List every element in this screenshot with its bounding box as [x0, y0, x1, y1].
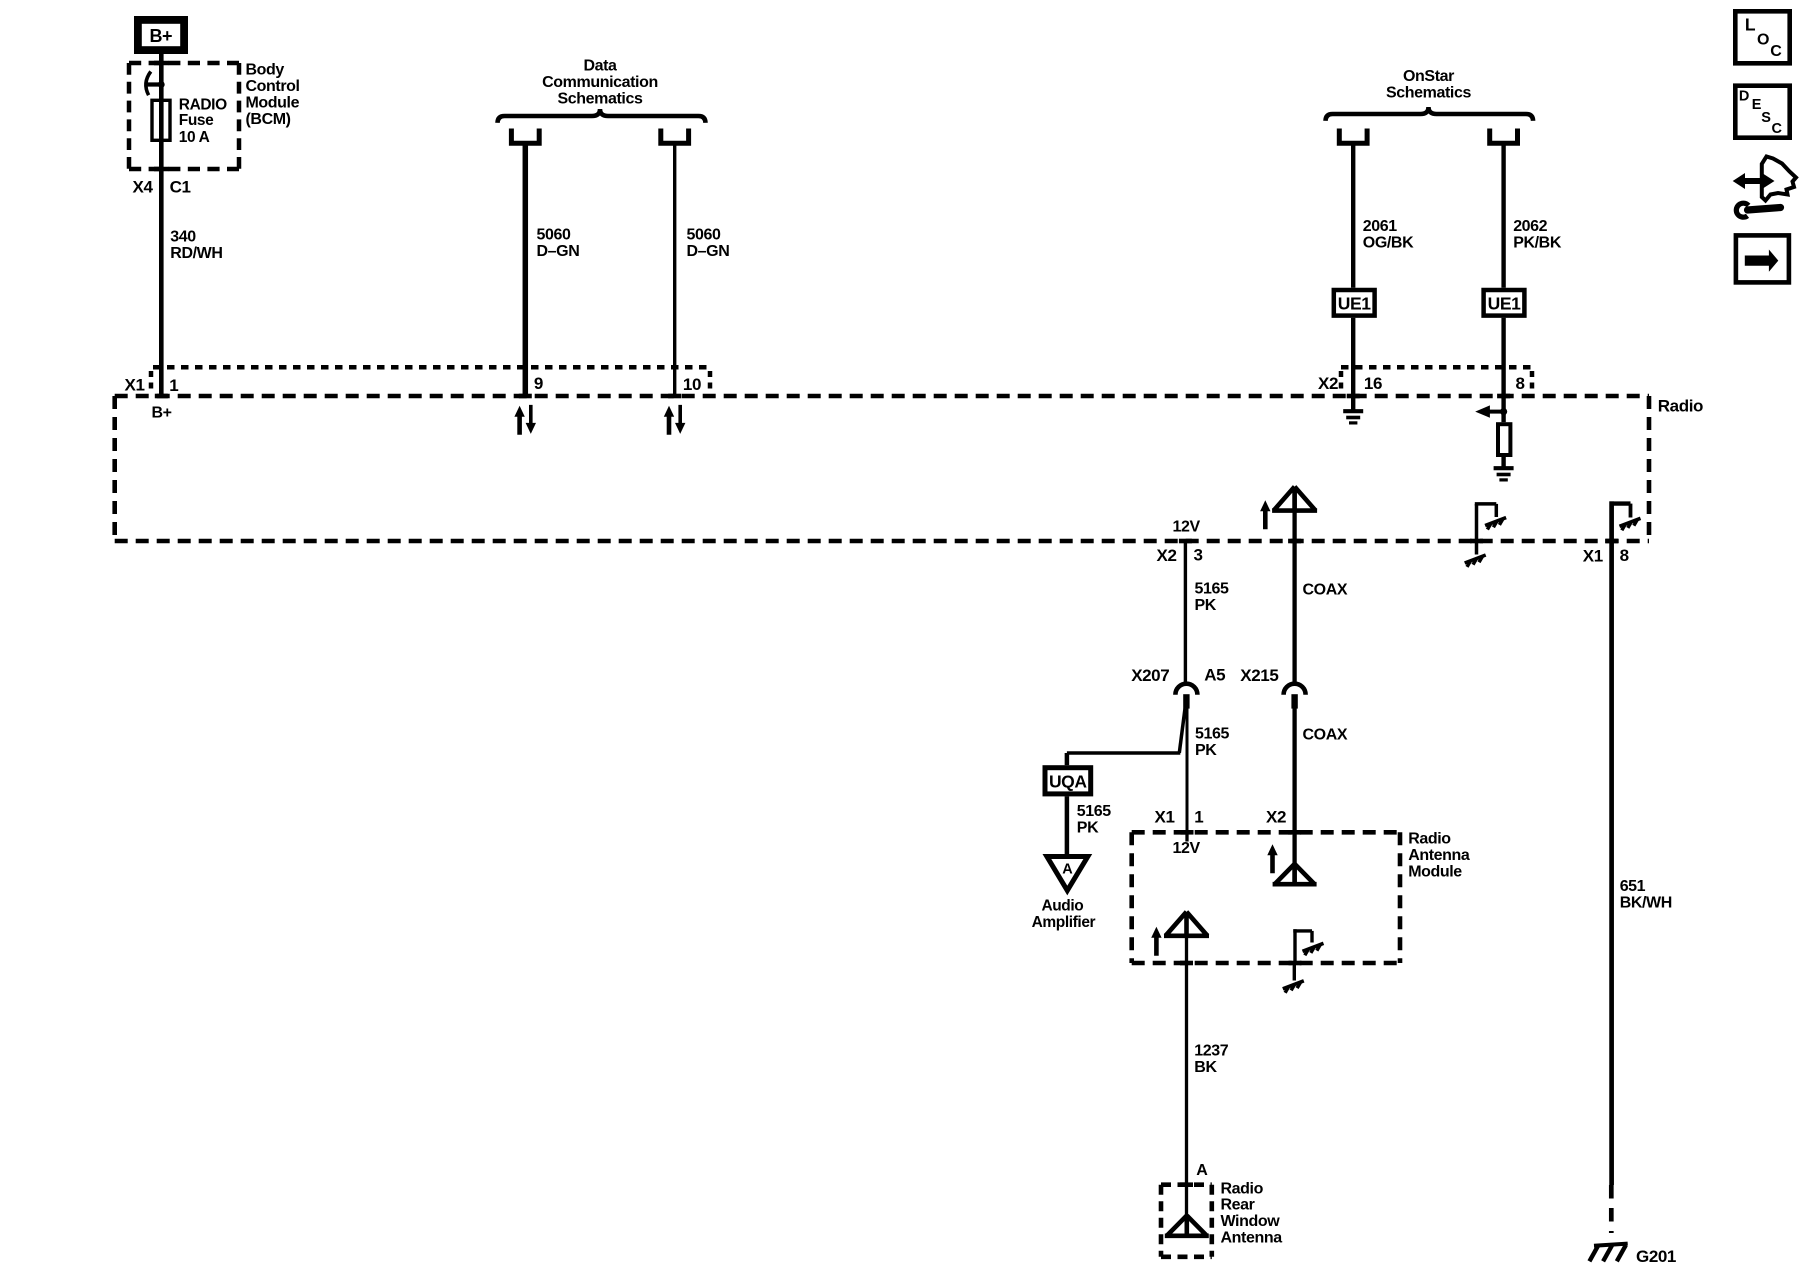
up arrow at radio antenna	[1260, 500, 1270, 529]
svg-text:UQA: UQA	[1049, 771, 1087, 791]
label 5165 PK upper	[1195, 581, 1229, 615]
wire 651 BK/WH	[1609, 501, 1614, 1185]
svg-text:OG/BK: OG/BK	[1363, 235, 1414, 252]
svg-text:OnStar: OnStar	[1403, 68, 1454, 85]
svg-text:Radio: Radio	[1658, 396, 1703, 415]
svg-text:Data: Data	[583, 58, 617, 75]
icon box arrow	[1736, 235, 1789, 282]
icon box DESC	[1735, 86, 1789, 138]
svg-text:1237: 1237	[1194, 1042, 1228, 1059]
svg-text:UE1: UE1	[1338, 293, 1372, 313]
connector label X1 pin 1	[125, 376, 179, 395]
svg-text:A5: A5	[1204, 666, 1225, 685]
connector labels X4 C1	[133, 178, 191, 197]
wire 5165 PK upper	[1184, 541, 1187, 684]
label X1 pin 8	[1583, 546, 1629, 565]
svg-text:PK: PK	[1195, 742, 1217, 759]
svg-text:C: C	[1770, 43, 1782, 60]
svg-text:X4: X4	[133, 178, 154, 197]
svg-text:UE1: UE1	[1488, 293, 1522, 313]
label 651 BK/WH	[1620, 878, 1672, 912]
header OnStar Schematics	[1386, 68, 1471, 101]
svg-text:Radio: Radio	[1408, 831, 1451, 848]
antenna symbol 12V in module	[1164, 912, 1209, 936]
svg-text:340: 340	[170, 229, 196, 246]
svg-text:D–GN: D–GN	[537, 243, 580, 260]
wire label 340 RD/WH	[170, 229, 222, 263]
svg-text:X1: X1	[1583, 546, 1603, 565]
svg-text:C: C	[1772, 121, 1783, 137]
pin ticks on Radio box bottom	[1179, 539, 1618, 544]
pin tick BCM bottom	[154, 167, 169, 172]
svg-text:3: 3	[1194, 546, 1203, 565]
wire pin 8 to resistor	[1501, 396, 1505, 422]
up arrow at module 12V antenna	[1151, 927, 1161, 956]
Radio Rear Window Antenna dashed box	[1161, 1185, 1212, 1257]
resistor in radio	[1498, 424, 1510, 455]
wire from antenna to rear window antenna	[1185, 936, 1188, 1236]
svg-text:RD/WH: RD/WH	[170, 245, 222, 262]
svg-text:B+: B+	[152, 404, 172, 421]
label Body Control Module (BCM)	[246, 62, 300, 129]
label Audio Amplifier	[1032, 897, 1096, 931]
arrow and resistor under pin 8	[1475, 405, 1507, 417]
svg-text:X2: X2	[1157, 546, 1177, 565]
svg-text:5165: 5165	[1077, 803, 1111, 820]
chassis ground below module	[1283, 963, 1304, 993]
svg-text:Amplifier: Amplifier	[1032, 914, 1096, 931]
label 2061 OG/BK	[1363, 218, 1414, 252]
svg-text:C1: C1	[170, 178, 191, 197]
svg-text:8: 8	[1516, 374, 1525, 393]
label 2062 PK/BK	[1513, 218, 1562, 252]
earth ground under resistor	[1494, 457, 1514, 480]
wire 5060 D-GN right	[673, 146, 676, 397]
svg-text:X2: X2	[1266, 808, 1286, 827]
brace under OnStar Schematics	[1326, 107, 1534, 121]
dotted connector line X2 (OnStar)	[1341, 367, 1532, 394]
icon box LOC	[1735, 11, 1789, 63]
up arrow at module X2 antenna	[1267, 844, 1277, 873]
svg-text:B+: B+	[149, 26, 172, 46]
wire UQA drop	[1065, 753, 1070, 765]
svg-text:BK/WH: BK/WH	[1620, 895, 1672, 912]
pin ticks on Radio box top	[155, 394, 1510, 399]
wire 12V pin1 down inside module	[1185, 832, 1188, 841]
label 5165 PK mid	[1195, 725, 1229, 759]
wire horizontal to UQA	[1067, 751, 1180, 754]
connector symbol data-comm left	[511, 129, 539, 144]
svg-text:A: A	[1062, 861, 1073, 877]
svg-text:Window: Window	[1221, 1213, 1281, 1230]
label 5060 D-GN left	[537, 227, 580, 261]
label 1237 BK	[1194, 1042, 1228, 1076]
wire 340 RD/WH from B+ through fuse to Radio pin 1	[159, 54, 164, 396]
svg-text:5165: 5165	[1195, 725, 1229, 742]
connector label X2 pin 16	[1318, 374, 1382, 393]
inline connector X215	[1240, 666, 1305, 709]
svg-text:Schematics: Schematics	[558, 90, 643, 107]
svg-text:Communication: Communication	[542, 74, 658, 91]
chassis ground flag in module	[1293, 929, 1323, 963]
svg-text:D–GN: D–GN	[687, 243, 730, 260]
icon diagnostic arrows and wrench	[1733, 157, 1796, 218]
connector symbol data-comm right	[661, 129, 689, 144]
Radio dashed box	[115, 396, 1649, 541]
antenna symbol X2 in module	[1273, 864, 1317, 884]
svg-text:651: 651	[1620, 878, 1646, 895]
svg-text:16: 16	[1364, 374, 1382, 393]
COAX wire lower	[1292, 708, 1296, 884]
svg-text:2061: 2061	[1363, 218, 1397, 235]
svg-text:10 A: 10 A	[179, 129, 210, 146]
svg-text:Module: Module	[1408, 864, 1462, 881]
svg-text:2062: 2062	[1513, 218, 1547, 235]
svg-text:(BCM): (BCM)	[246, 111, 291, 128]
svg-text:Antenna: Antenna	[1221, 1229, 1283, 1246]
label Radio Rear Window Antenna	[1221, 1180, 1283, 1246]
wire 5165 PK below connector (vertical to X1 pin 1)	[1186, 708, 1189, 832]
double arrow under pin 9	[514, 405, 536, 435]
wire 2061 OG/BK	[1351, 146, 1355, 397]
svg-text:PK: PK	[1077, 819, 1099, 836]
inline connector X207 A5	[1131, 666, 1225, 709]
label 5060 D-GN right	[687, 227, 730, 261]
svg-text:12V: 12V	[1173, 840, 1201, 857]
battery feed symbol B+	[138, 20, 184, 50]
svg-text:9: 9	[534, 374, 543, 393]
svg-text:Module: Module	[246, 95, 300, 112]
svg-text:Antenna: Antenna	[1408, 847, 1470, 864]
svg-text:S: S	[1761, 110, 1771, 126]
svg-text:10: 10	[683, 375, 701, 394]
wire 5060 D-GN left	[523, 146, 529, 397]
svg-text:Fuse: Fuse	[179, 112, 214, 129]
Radio Antenna Module dashed box	[1132, 832, 1400, 963]
dotted connector line X1 (left)	[151, 367, 710, 394]
dashed wire to G201	[1609, 1185, 1614, 1233]
svg-text:Radio: Radio	[1221, 1180, 1264, 1197]
switch hook symbol inside BCM	[145, 72, 165, 96]
chassis ground flag in radio (left)	[1475, 504, 1506, 541]
svg-text:1: 1	[169, 376, 178, 395]
svg-text:Body: Body	[246, 62, 285, 79]
svg-text:X1: X1	[1155, 808, 1175, 827]
label 5165 PK at UQA	[1077, 803, 1111, 837]
splice pack UE1 left	[1334, 290, 1375, 316]
connector label X2 pin 3	[1157, 546, 1203, 565]
svg-text:5060: 5060	[687, 227, 721, 244]
label Radio Antenna Module	[1408, 831, 1470, 881]
svg-text:5060: 5060	[537, 227, 571, 244]
svg-text:X1: X1	[125, 376, 145, 395]
option box UQA	[1045, 768, 1091, 794]
pin tick BCM top	[154, 61, 169, 66]
connector symbol OnStar right	[1490, 129, 1518, 144]
svg-text:Control: Control	[246, 78, 300, 95]
antenna symbol in radio (COAX)	[1272, 487, 1317, 511]
COAX wire upper	[1292, 488, 1296, 684]
brace under Data Communication Schematics	[498, 109, 706, 123]
svg-text:COAX: COAX	[1303, 726, 1348, 743]
header Data Communication Schematics	[542, 58, 658, 108]
svg-text:A: A	[1196, 1162, 1208, 1179]
chassis ground flag in radio at 651	[1610, 504, 1641, 531]
audio amplifier triangle A	[1047, 857, 1088, 891]
svg-text:X215: X215	[1240, 666, 1278, 685]
svg-text:PK: PK	[1195, 597, 1217, 614]
rear window antenna symbol	[1165, 1216, 1209, 1236]
connector label X1 pin 1 (module)	[1155, 808, 1204, 827]
fuse RADIO 10A	[152, 100, 170, 140]
wire UQA to amplifier	[1065, 796, 1070, 854]
svg-text:O: O	[1757, 32, 1769, 49]
wire slant to splice	[1179, 709, 1185, 753]
label RADIO Fuse 10 A	[179, 97, 227, 146]
svg-text:Schematics: Schematics	[1386, 84, 1471, 101]
svg-text:BK: BK	[1194, 1059, 1217, 1076]
wire 2062 PK/BK	[1501, 146, 1505, 397]
svg-text:D: D	[1739, 89, 1749, 105]
svg-text:G201: G201	[1636, 1247, 1676, 1266]
svg-text:1: 1	[1194, 808, 1203, 827]
svg-text:PK/BK: PK/BK	[1513, 235, 1562, 252]
svg-text:5165: 5165	[1195, 581, 1229, 598]
svg-text:Rear: Rear	[1221, 1197, 1255, 1214]
svg-text:8: 8	[1620, 546, 1629, 565]
ground G201	[1589, 1244, 1627, 1262]
pin tick rear antenna box	[1180, 1182, 1193, 1187]
pin ticks module box	[1180, 832, 1302, 963]
connector symbol OnStar left	[1339, 129, 1367, 144]
svg-text:L: L	[1745, 15, 1756, 35]
earth ground under pin 16	[1343, 396, 1363, 423]
svg-text:Audio: Audio	[1041, 897, 1083, 914]
svg-text:X207: X207	[1131, 666, 1169, 685]
chassis ground below radio box (left)	[1465, 541, 1486, 567]
svg-text:X2: X2	[1318, 374, 1338, 393]
Body Control Module (BCM) dashed box	[129, 63, 239, 169]
double arrow under pin 10	[664, 405, 686, 435]
svg-text:12V: 12V	[1173, 519, 1201, 536]
splice pack UE1 right	[1484, 290, 1525, 316]
svg-text:COAX: COAX	[1303, 582, 1348, 599]
